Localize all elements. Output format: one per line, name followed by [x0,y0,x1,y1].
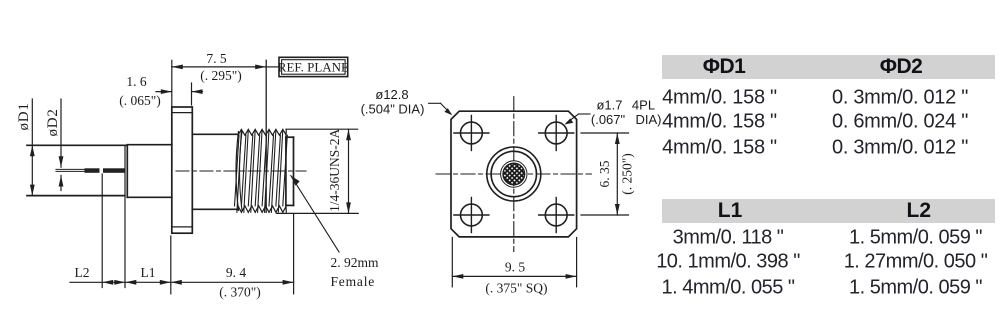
svg-text:1/4-36UNS-2A: 1/4-36UNS-2A [327,129,342,212]
extension line body right edge (L2/L1) [124,145,126,287]
shank between flange and thread [192,134,237,209]
mounting flange (side view) [172,107,193,233]
svg-text:L2: L2 [75,265,90,280]
table 1 header PhiD1 [703,55,746,79]
svg-text:L1: L1 [141,265,156,280]
svg-text:(. 065"): (. 065") [119,93,161,108]
svg-text:4PL: 4PL [632,98,655,113]
svg-text:(. 250"): (. 250") [620,153,635,195]
table 1 header PhiD2 [880,55,923,79]
mounting hole bottom-right with center cross [539,198,574,233]
svg-text:(.504" DIA): (.504" DIA) [361,101,425,116]
connector body (dielectric) outline [27,145,127,195]
mounting hole top-left with center cross [454,116,489,151]
svg-text:ø12.8: ø12.8 [375,87,408,102]
thread extent bracket [276,129,358,213]
svg-text:9. 5: 9. 5 [505,260,526,275]
svg-text:(.067": (.067" [591,112,626,127]
table 2 row 2 L1 value [656,251,800,274]
extension line connector end (9.4 right) [293,214,295,294]
label 1/4-36UNS-2A thread spec [327,129,342,212]
svg-text:7. 5: 7. 5 [206,51,227,66]
svg-text:(. 375" SQ): (. 375" SQ) [485,281,547,296]
svg-text:6. 35: 6. 35 [597,160,612,187]
svg-text:1. 6: 1. 6 [126,74,147,89]
svg-text:REF. PLANE: REF. PLANE [278,60,349,75]
threaded section 1/4-36UNS-2A [235,129,288,212]
front view flange square with chamfered corners [451,111,577,237]
svg-text:9. 4: 9. 4 [226,265,247,280]
dimension phi-D1 (body diameter) [16,99,35,196]
label L1 [141,265,156,280]
table 1 header band [662,55,995,79]
interface second circle [491,151,536,196]
table 2 header L1 [718,199,743,223]
leader 2.92mm Female interface [291,176,379,289]
dimension 6.35 (.250in) hole spacing [581,133,635,215]
table 1 row 2 D2 value [832,110,968,133]
svg-text:Female: Female [331,274,376,289]
table 1 row 2 D1 value [662,110,777,133]
dimension 1.6 (.065in) flange thickness [119,74,202,108]
reference plane line [265,60,267,212]
dimension 9.5 (.375in SQ) flange width [452,238,576,296]
table 2 row 3 L2 value [849,277,982,300]
front view vertical center line [513,97,515,252]
label L2 [75,265,90,280]
svg-text:ø1.7: ø1.7 [596,98,622,113]
label 9.4 (.370in) [219,265,261,300]
table 1 row 1 D1 value [662,86,777,109]
table 2 header L2 [907,199,932,223]
center contact with hatch [503,163,525,185]
table 2 row 1 L1 value [673,227,784,250]
extension line at pin end (L2 left) [101,174,103,288]
bottom dimension line L2 / L1 / 9.4 [70,280,294,285]
REF. PLANE label box [266,57,349,76]
label phi 1.7 4PL (.067in DIA) with leader [565,98,662,127]
center pin [56,168,125,173]
table 1 separator line [662,133,996,135]
middle block section [127,145,172,198]
mounting hole top-right with center cross [539,116,574,151]
table 2 header band [662,199,995,223]
svg-text:(. 295"): (. 295") [200,68,242,83]
dimension phi-D2 (pin diameter) [45,99,63,191]
table 1 row 1 D2 value [832,86,968,109]
table 2 separator line [662,273,996,275]
svg-text:DIA): DIA) [636,112,662,127]
table 1 row 3 D2 value [832,137,968,160]
svg-text:øD1: øD1 [16,102,32,130]
extension line flange left edge (L1/9.4) [170,236,172,294]
coupling end cap [286,130,294,213]
svg-text:2. 92mm: 2. 92mm [331,255,380,270]
body segment boundary [126,145,128,197]
label phi 12.8 (.504in DIA) with leader [361,87,453,116]
table 2 row 2 L2 value [844,251,988,274]
table 2 row 1 L2 value [849,227,982,250]
svg-text:(. 370"): (. 370") [219,285,261,300]
front view horizontal center line [436,173,592,175]
interface outer circle [487,147,541,201]
dielectric circle [501,161,527,187]
table 1 row 3 D1 value [662,137,777,160]
svg-text:øD2: øD2 [45,108,61,136]
table 2 row 3 L1 value [662,277,795,300]
center line of side view [176,170,306,172]
dimension 7.5 (.295in) flange to reference plane [172,51,266,106]
mounting hole bottom-left with center cross [454,198,489,233]
